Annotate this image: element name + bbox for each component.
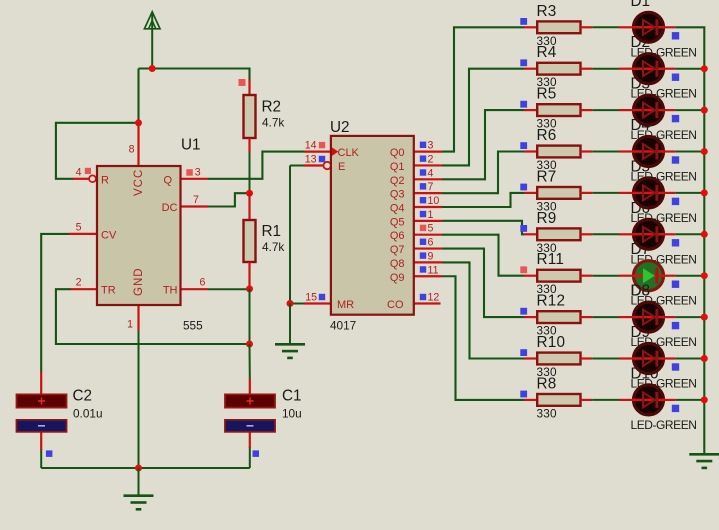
wire Q9 to R8: [442, 276, 524, 400]
resistor R5: [537, 104, 580, 116]
svg-text:U2: U2: [330, 119, 350, 136]
resistor R6: [537, 146, 580, 158]
logic state square C2 bottom: [46, 450, 53, 457]
svg-text:1: 1: [428, 209, 434, 221]
node bus junction row 2: [701, 65, 708, 72]
node bus junction row 3: [701, 107, 708, 114]
wire LED D2 to bus: [665, 68, 676, 70]
logic state square R2 top: [239, 79, 246, 86]
LED D10: [634, 385, 664, 415]
wire bus connector row 7: [675, 275, 704, 277]
logic state square C1 bottom: [253, 450, 260, 457]
U2 pin Q3 stub: [414, 192, 442, 194]
LED D8: [634, 302, 664, 332]
svg-text:Q5: Q5: [390, 216, 405, 228]
resistor R9: [537, 228, 580, 240]
wire ground rail: [41, 467, 250, 469]
ground (bottom center): [138, 468, 140, 496]
resistor R8: [537, 394, 580, 406]
svg-text:GND: GND: [133, 267, 145, 296]
wire bus connector row 9: [675, 358, 704, 360]
U2 clock chevron on CLK: [332, 147, 339, 156]
U2 body: [331, 136, 414, 315]
power symbol VCC: [151, 14, 153, 69]
resistor R5 left stub: [524, 109, 537, 111]
node bus junction row 7: [701, 272, 708, 279]
wire R2 bottom to DC node: [249, 152, 251, 193]
pin 8 VCC stub: [137, 123, 139, 166]
capacitor C1: [249, 379, 251, 395]
node VCC junction at arrow: [149, 65, 156, 72]
svg-text:TR: TR: [101, 285, 116, 297]
svg-text:R5: R5: [537, 86, 557, 103]
svg-text:R2: R2: [262, 99, 282, 116]
logic state square R12 feed: [520, 308, 527, 315]
svg-text:10: 10: [428, 195, 440, 207]
logic state square pin 12: [420, 294, 426, 300]
resistor R4: [537, 63, 580, 75]
resistor R5 right stub: [581, 109, 593, 111]
logic state square pin 4: [85, 168, 91, 174]
U2 pin Q9 stub: [414, 275, 442, 277]
svg-text:4.7k: 4.7k: [262, 240, 284, 254]
resistor R6 left stub: [524, 150, 537, 152]
node bus junction row 4: [701, 148, 708, 155]
U2 pin Q0 stub: [414, 151, 442, 153]
wire LED D6 to bus: [665, 233, 676, 235]
svg-text:6: 6: [428, 237, 434, 249]
wire LED D3 to bus: [665, 109, 676, 111]
svg-text:7: 7: [193, 194, 199, 206]
logic state square LED D4 right: [672, 156, 679, 163]
wire Q7 to R12: [442, 249, 524, 318]
wire R4 to LED: [592, 68, 619, 70]
wire bus connector row 3: [675, 109, 704, 111]
wire LED D10 to bus: [665, 399, 676, 401]
svg-text:R11: R11: [537, 251, 565, 268]
resistor R12: [537, 311, 580, 323]
resistor R3 right stub: [581, 26, 593, 28]
LED D7: [634, 261, 664, 291]
svg-text:11: 11: [428, 264, 439, 276]
svg-text:8: 8: [129, 144, 135, 156]
logic state square R4 feed: [520, 59, 527, 66]
svg-text:13: 13: [305, 154, 317, 166]
node bus junction row 10: [701, 396, 708, 403]
logic state square pin 14: [319, 142, 325, 148]
wire DC pin jog to node: [208, 193, 250, 206]
svg-text:CLK: CLK: [338, 147, 360, 159]
wire Q4 to R7: [442, 193, 524, 207]
pin 1 GND stub: [137, 305, 139, 331]
logic state square pin 4: [420, 169, 426, 175]
LED D6: [634, 219, 664, 249]
svg-text:5: 5: [76, 221, 82, 233]
svg-text:5: 5: [428, 223, 434, 235]
logic state square LED D5 right: [672, 198, 679, 205]
logic state square R9 feed: [520, 225, 527, 232]
resistor R7: [537, 187, 580, 199]
logic state square pin 15: [319, 294, 325, 300]
resistor R4 left stub: [524, 68, 537, 70]
wire R5 to LED: [592, 109, 619, 111]
node TH/R1 junction: [246, 285, 253, 292]
svg-text:4.7k: 4.7k: [262, 116, 284, 130]
logic state square pin 3: [420, 142, 426, 148]
resistor R2: [244, 95, 256, 138]
logic state square LED D9 right: [672, 363, 679, 370]
U2 pin 13 inversion bubble: [324, 162, 331, 169]
wire Q1 to R4: [442, 69, 524, 166]
svg-text:555: 555: [183, 319, 203, 333]
resistor R4 right stub: [581, 68, 593, 70]
resistor R10 left stub: [524, 357, 537, 359]
resistor R11: [537, 270, 580, 282]
svg-text:0.01u: 0.01u: [73, 407, 103, 421]
wire bus connector row 6: [675, 233, 704, 235]
LED D9: [634, 344, 664, 374]
svg-text:D8: D8: [631, 283, 651, 300]
node TR rail junction: [246, 341, 253, 348]
svg-text:R10: R10: [537, 334, 566, 351]
svg-text:330: 330: [537, 406, 558, 420]
logic state square R5 feed: [520, 101, 527, 108]
resistor R12 left stub: [524, 316, 537, 318]
svg-text:4: 4: [428, 167, 434, 179]
logic state square R10 feed: [520, 349, 527, 356]
wire pin1 down to ground rail: [138, 331, 140, 469]
logic state square pin 5: [420, 225, 426, 231]
logic state square pin 10: [420, 197, 426, 203]
svg-text:U1: U1: [181, 137, 201, 154]
svg-text:10u: 10u: [282, 407, 302, 421]
svg-text:CV: CV: [101, 229, 117, 241]
U1 body: [97, 166, 181, 305]
svg-text:12: 12: [428, 292, 440, 304]
logic state square R6 feed: [520, 142, 527, 149]
resistor R11 right stub: [581, 275, 593, 277]
U2 pin Q6 stub: [414, 234, 442, 236]
pin 3 Q stub: [181, 178, 209, 180]
logic state square pin 9: [420, 252, 426, 258]
resistor R6 right stub: [581, 150, 593, 152]
logic state square R7 feed: [520, 184, 527, 191]
node bus junction row 8: [701, 314, 708, 321]
logic state square pin 1: [420, 211, 426, 217]
svg-text:R3: R3: [537, 3, 557, 20]
svg-text:15: 15: [305, 292, 317, 304]
LED D5: [634, 178, 664, 208]
wire LED bus right side: [675, 27, 704, 454]
svg-text:2: 2: [76, 277, 82, 289]
wire bus connector row 10: [675, 399, 704, 401]
wire R9 to LED: [592, 233, 619, 235]
svg-text:4017: 4017: [330, 318, 356, 332]
resistor R3 left stub: [524, 26, 537, 28]
U2 pin 15 MR stub: [304, 302, 331, 304]
U2 pin Q4 stub: [414, 206, 442, 208]
LED D3: [634, 95, 664, 125]
pin 5 CV stub: [69, 233, 97, 235]
wire R8 to LED: [592, 399, 619, 401]
LED D2: [634, 54, 664, 84]
svg-text:6: 6: [200, 277, 206, 289]
logic state square LED D6 right: [672, 239, 679, 246]
wire LED D9 to bus: [665, 357, 676, 359]
svg-text:4: 4: [76, 166, 82, 178]
svg-text:Q4: Q4: [390, 203, 405, 215]
node bus junction row 5: [701, 189, 708, 196]
wire Q to CLK: [208, 152, 304, 179]
svg-text:Q2: Q2: [390, 175, 405, 187]
capacitor C2: [40, 372, 42, 395]
wire LED D1 to bus: [665, 26, 676, 28]
wire Q2 to R5: [442, 110, 524, 179]
svg-text:14: 14: [305, 140, 317, 152]
wire MR horizontal: [290, 303, 304, 305]
svg-text:CO: CO: [387, 299, 404, 311]
svg-text:Q9: Q9: [390, 272, 405, 284]
svg-text:7: 7: [428, 181, 434, 193]
node bus junction row 9: [701, 355, 708, 362]
wire node down to C1: [249, 344, 251, 379]
wire Q3 to R6: [442, 152, 524, 194]
resistor R9 right stub: [581, 233, 593, 235]
svg-text:C2: C2: [73, 387, 93, 404]
wire LED D4 to bus: [665, 150, 676, 152]
svg-text:R1: R1: [262, 223, 282, 240]
U2 pin 12 CO stub: [414, 302, 441, 304]
svg-text:2: 2: [428, 153, 434, 165]
wire VCC net to reset pin: left and down to R pin: [56, 123, 139, 179]
logic state square LED D1 right: [672, 32, 679, 39]
node ground rail junction: [135, 465, 142, 472]
svg-text:TH: TH: [163, 285, 178, 297]
svg-text:3: 3: [428, 140, 434, 152]
wire bus connector row 5: [675, 192, 704, 194]
resistor R7 right stub: [581, 192, 593, 194]
logic state square pin 11: [420, 266, 426, 272]
wire R12 to LED: [592, 316, 619, 318]
R1 top stub: [248, 193, 250, 220]
wire E net vertical to MR: [289, 166, 291, 304]
svg-text:VCC: VCC: [133, 169, 145, 196]
logic state square pin 6: [420, 239, 426, 245]
svg-text:Q3: Q3: [390, 189, 405, 201]
wire C2 bottom to rail: [40, 449, 42, 468]
svg-text:Q0: Q0: [390, 147, 405, 159]
R1 bottom stub: [248, 262, 250, 289]
svg-text:R12: R12: [537, 293, 566, 310]
ground (below MR): [289, 304, 291, 345]
pin 7 DC stub: [181, 205, 209, 207]
U2 pin Q8 stub: [414, 261, 442, 263]
svg-text:DC: DC: [162, 202, 178, 214]
wire bus connector row 2: [675, 68, 704, 70]
pin 4 inversion bubble: [89, 175, 96, 182]
wire E horizontal: [290, 165, 304, 167]
resistor R1: [244, 220, 256, 262]
logic state square LED D10 right: [672, 405, 679, 412]
LED D4: [634, 137, 664, 167]
svg-text:R8: R8: [537, 375, 557, 392]
logic state square pin 13: [319, 156, 325, 162]
node bus junction row 6: [701, 231, 708, 238]
svg-text:D1: D1: [631, 0, 651, 10]
pin 4 R stub: [73, 178, 89, 180]
U2 pin 14 CLK stub: [304, 151, 331, 153]
svg-text:C1: C1: [282, 387, 302, 404]
svg-text:R7: R7: [537, 168, 557, 185]
resistor R8 left stub: [524, 399, 537, 401]
resistor R3: [537, 21, 580, 33]
resistor R7 left stub: [524, 192, 537, 194]
svg-text:3: 3: [195, 166, 201, 178]
wire R7 to LED: [592, 192, 619, 194]
wire Q8 to R10: [442, 262, 524, 358]
wire VCC to R2 top: [248, 79, 250, 95]
svg-text:R9: R9: [537, 210, 557, 227]
logic state square LED D7 right: [672, 281, 679, 288]
wire CV to C2: [41, 234, 69, 372]
R2 bottom stub: [248, 138, 250, 152]
wire Q5 to R9: [442, 221, 524, 234]
wire R3 to LED: [592, 26, 619, 28]
resistor R10: [537, 353, 580, 365]
svg-text:R4: R4: [537, 44, 557, 61]
wire bus connector row 4: [675, 151, 704, 153]
svg-text:1: 1: [127, 319, 133, 331]
U2 pin 13 E stub: [304, 164, 323, 166]
svg-text:E: E: [338, 161, 345, 173]
pin 6 TH stub: [181, 288, 209, 290]
U2 pin Q2 stub: [414, 178, 442, 180]
wire LED D7 to bus: [665, 275, 676, 277]
svg-text:Q6: Q6: [390, 230, 405, 242]
logic state square R3 feed: [520, 18, 527, 25]
svg-text:Q8: Q8: [390, 258, 405, 270]
wire R1 node down to TR rail: [249, 289, 251, 344]
svg-text:9: 9: [428, 250, 434, 262]
logic state square LED D3 right: [672, 115, 679, 122]
svg-text:Q7: Q7: [390, 244, 405, 256]
U2 pin Q5 stub: [414, 220, 442, 222]
wire LED D8 to bus: [665, 316, 676, 318]
resistor R8 right stub: [581, 399, 593, 401]
U2 pin Q7 stub: [414, 247, 442, 249]
svg-text:LED-GREEN: LED-GREEN: [631, 418, 697, 432]
logic state square pin 3: [186, 169, 193, 176]
resistor R12 right stub: [581, 316, 593, 318]
wire LED D5 to bus: [665, 192, 676, 194]
wire bus connector row 8: [675, 316, 704, 318]
logic state square R11 feed: [520, 266, 527, 273]
logic state square LED D2 right: [672, 74, 679, 81]
wire R11 to LED: [592, 275, 619, 277]
node VCC junction at pin8: [135, 119, 142, 126]
svg-text:MR: MR: [337, 299, 354, 311]
wire R10 to LED: [592, 358, 619, 360]
logic state square pin 2: [420, 155, 426, 161]
resistor R9 left stub: [524, 233, 537, 235]
resistor R11 left stub: [524, 275, 537, 277]
ground (bottom right): [703, 453, 705, 456]
wire R6 to LED: [592, 151, 619, 153]
node DC/R2/R1 junction: [246, 190, 253, 197]
wire VCC net: junction to left corner and down to pin8 node: [139, 69, 250, 82]
svg-text:Q1: Q1: [390, 161, 405, 173]
svg-text:R: R: [101, 174, 109, 186]
wire TH to R1 bottom: [208, 288, 250, 290]
wire C1 bottom to rail: [249, 447, 251, 468]
LED D1: [634, 12, 664, 42]
logic state square pin 7: [420, 183, 426, 189]
svg-text:Q: Q: [163, 174, 172, 186]
node E/MR junction: [287, 300, 294, 307]
wire Q0 to R3: [442, 27, 524, 151]
logic state square LED D8 right: [672, 322, 679, 329]
resistor R10 right stub: [581, 357, 593, 359]
wire TR: left corner and down to rail: [56, 289, 250, 344]
logic state square R8 feed: [520, 391, 527, 398]
U2 pin Q1 stub: [414, 164, 442, 166]
pin 2 TR stub: [71, 288, 97, 290]
wire Q6 to R11: [442, 235, 524, 276]
svg-text:R6: R6: [537, 127, 557, 144]
